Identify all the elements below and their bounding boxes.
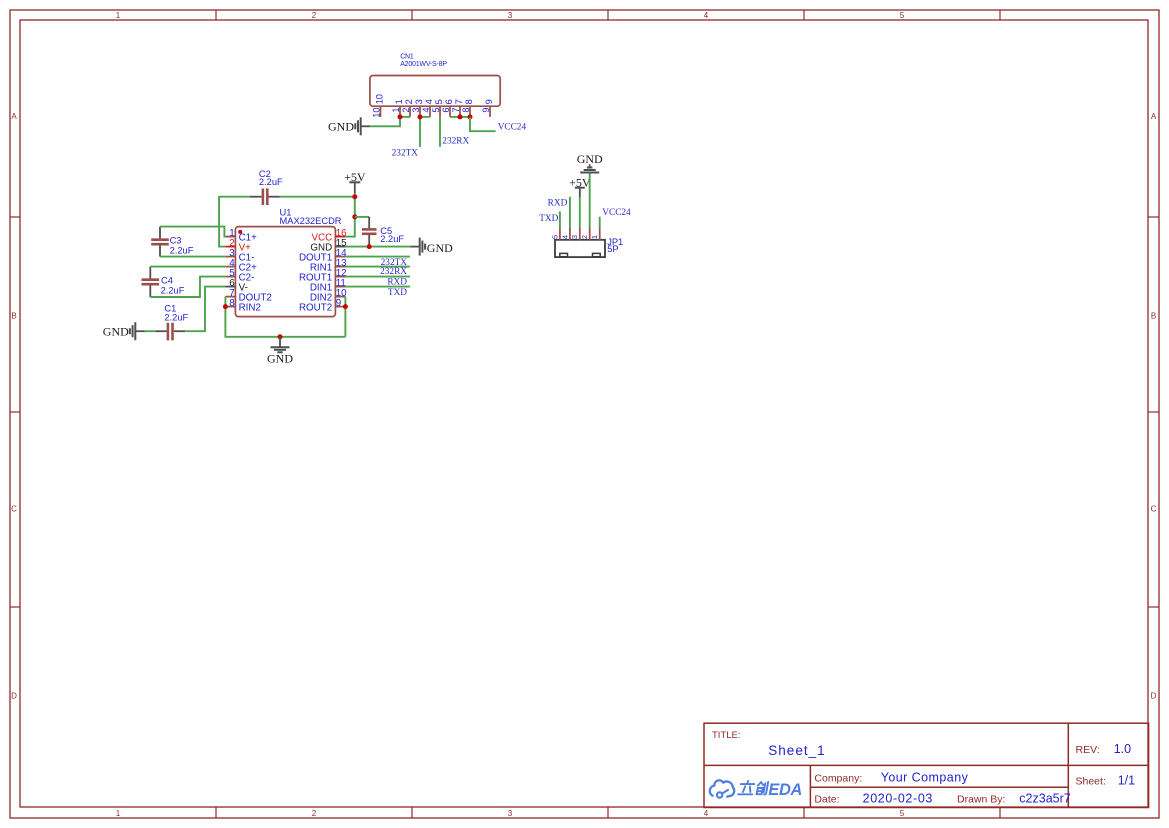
wire CN1 pin6-pin7-pin8 (450, 116, 470, 118)
svg-text:VCC24: VCC24 (602, 208, 631, 218)
wire JP1 pin2 to GND (589, 173, 591, 228)
wire CN1 pin8 to net VCC24 (470, 117, 496, 131)
svg-text:2020-02-03: 2020-02-03 (863, 791, 933, 805)
junction U1 pin9 (343, 304, 348, 309)
svg-text:232RX: 232RX (442, 136, 469, 146)
U1 pin 2 V+ (225, 246, 235, 248)
wire CN1 pin5 to net 232RX (439, 117, 441, 147)
junction +5V / C2 (352, 194, 357, 199)
capacitor C2 2.2uF (250, 169, 283, 205)
svg-text:1: 1 (116, 11, 121, 20)
U1 pin 9 ROUT2 (335, 306, 345, 308)
svg-text:2.2uF: 2.2uF (164, 313, 188, 323)
capacitor C4 2.2uF (142, 267, 185, 297)
svg-text:3: 3 (411, 107, 421, 112)
svg-text:2: 2 (580, 235, 589, 239)
svg-text:C3: C3 (170, 235, 182, 245)
CN1 pin 1 (399, 106, 401, 117)
U1 pin 12 ROUT1 (335, 276, 345, 278)
ground GND left of C1 (103, 322, 145, 340)
U1 pin 15 GND (335, 246, 345, 248)
svg-text:ROUT2: ROUT2 (299, 302, 332, 313)
JP1 pin 5 (559, 227, 561, 240)
junction bottom GND (278, 334, 283, 339)
svg-text:EDA: EDA (768, 781, 802, 799)
svg-text:C4: C4 (161, 276, 173, 286)
ground GND right of C5 (410, 238, 453, 256)
wire C1 left to GND (145, 330, 155, 332)
svg-text:4: 4 (704, 11, 709, 20)
svg-text:5: 5 (900, 11, 905, 20)
ground GND under U1 (267, 337, 293, 366)
CN1 pin 5 (439, 106, 441, 117)
svg-text:Company:: Company: (814, 772, 862, 784)
U1 pin 5 C2- (225, 276, 235, 278)
svg-text:9: 9 (481, 107, 491, 112)
svg-text:10: 10 (372, 107, 382, 117)
svg-text:GND: GND (427, 241, 453, 255)
wire JP1 pin4 net RXD (569, 197, 571, 228)
svg-text:6: 6 (441, 107, 451, 112)
U1 pin 11 DIN1 (335, 286, 345, 288)
svg-text:c2z3a5r7: c2z3a5r7 (1019, 791, 1070, 805)
wire +5V down to U1 pin16 (345, 193, 354, 236)
U1 pin 7 DOUT2 (225, 296, 235, 298)
svg-text:8: 8 (464, 99, 474, 104)
svg-text:B: B (1151, 311, 1156, 320)
svg-text:Drawn By:: Drawn By: (957, 793, 1005, 805)
title block (704, 723, 1149, 807)
svg-text:VCC24: VCC24 (498, 122, 527, 132)
power +5V at JP1 (569, 175, 591, 197)
CN1 pin 7 (459, 106, 461, 117)
svg-text:1: 1 (116, 809, 121, 818)
svg-text:RXD: RXD (548, 199, 568, 209)
svg-text:TXD: TXD (539, 214, 558, 224)
svg-text:1: 1 (394, 99, 404, 104)
wire CN1 pin1 to GND symbol (370, 117, 400, 126)
svg-text:1/1: 1/1 (1118, 773, 1135, 787)
svg-text:A2001WV-S-8P: A2001WV-S-8P (400, 61, 447, 68)
CN1 pin 4 (429, 106, 431, 117)
svg-text:3: 3 (508, 11, 513, 20)
wire JP1 pin5 net TXD (559, 212, 561, 228)
junction C5 bottom (367, 244, 372, 249)
svg-text:GND: GND (267, 352, 293, 366)
wire C2 right to +5V (280, 196, 355, 198)
svg-text:D: D (11, 691, 17, 700)
svg-text:2.2uF: 2.2uF (259, 177, 283, 187)
power +5V at C2 (344, 170, 366, 193)
svg-text:RIN2: RIN2 (239, 302, 261, 313)
op-amp/IC U1 MAX232ECDR (235, 208, 341, 317)
svg-text:2.2uF: 2.2uF (161, 286, 185, 296)
svg-text:D: D (1151, 691, 1157, 700)
svg-text:232TX: 232TX (392, 149, 419, 159)
svg-text:GND: GND (577, 152, 603, 166)
junction +5V / C5 branch (352, 214, 357, 219)
wire C4 top to U1 pin4 (150, 266, 225, 268)
svg-text:C: C (11, 504, 17, 513)
svg-text:3: 3 (414, 99, 424, 104)
svg-text:2.2uF: 2.2uF (380, 234, 404, 244)
junction at CN1 pin3 (418, 114, 423, 119)
svg-text:REV:: REV: (1076, 744, 1100, 756)
wire JP1 pin1 net VCC24 (599, 217, 601, 228)
svg-text:9: 9 (484, 99, 494, 104)
junction at CN1 pin1 (398, 114, 403, 119)
wire U1 pin12 net RXD (345, 276, 410, 278)
svg-text:Sheet:: Sheet: (1076, 775, 1106, 787)
ground GND above JP1 (inverted) (577, 152, 603, 173)
svg-text:9: 9 (336, 298, 341, 309)
CN1 pin 10 (380, 106, 382, 117)
svg-text:GND: GND (328, 120, 354, 134)
wire U1 pin11 net TXD (345, 286, 410, 288)
svg-text:5: 5 (550, 235, 559, 239)
svg-text:A: A (1151, 112, 1157, 121)
CN1 pin 9 (489, 106, 491, 117)
wire U1 pin14 net 232TX (345, 256, 410, 258)
svg-text:4: 4 (704, 809, 709, 818)
svg-text:3: 3 (508, 809, 513, 818)
CN1 pin 2 (409, 106, 411, 117)
wire C3 bottom to U1 pin3 (160, 256, 225, 258)
wire C2 left to U1 pin2 (219, 197, 250, 247)
U1 pin 14 DOUT1 (335, 256, 345, 258)
svg-text:8: 8 (461, 107, 471, 112)
svg-text:7: 7 (451, 107, 461, 112)
svg-text:2: 2 (401, 107, 411, 112)
wire U1 bottom GND bus (225, 297, 345, 337)
svg-text:GND: GND (103, 325, 129, 339)
svg-text:CN1: CN1 (400, 54, 414, 61)
svg-text:2: 2 (312, 809, 317, 818)
svg-text:Date:: Date: (814, 793, 839, 805)
wire JP1 pin3 to +5V (579, 197, 581, 227)
svg-text:5: 5 (900, 809, 905, 818)
svg-text:Sheet_1: Sheet_1 (768, 743, 825, 758)
wire U1 pin13 net 232RX (345, 266, 410, 268)
CN1 pin 3 (419, 106, 421, 117)
svg-text:2: 2 (312, 11, 317, 20)
svg-text:5: 5 (434, 99, 444, 104)
connector JP1 5P (550, 227, 623, 257)
LCEDA logo (710, 780, 802, 799)
wire C3 top to U1 pin1 (160, 227, 225, 237)
U1 pin 13 RIN1 (335, 266, 345, 268)
JP1 pin 3 (579, 227, 581, 240)
wire CN1 pin1-pin2 (GND) (400, 116, 410, 118)
JP1 pin 2 (589, 227, 591, 240)
junction U1 pin8 (223, 304, 228, 309)
JP1 pin 4 (569, 227, 571, 240)
U1 pin 4 C2+ (225, 266, 235, 268)
junction at CN1 pin7 (458, 114, 463, 119)
svg-text:5P: 5P (607, 244, 618, 254)
ground GND at CN1 (328, 117, 370, 135)
svg-text:1.0: 1.0 (1114, 742, 1131, 756)
junction inside U1 top-left (238, 230, 242, 234)
U1 pin 16 VCC (335, 236, 345, 238)
svg-text:A: A (11, 112, 17, 121)
wire U1 pin15 to GND (through C5 bottom) (345, 246, 410, 248)
svg-text:3: 3 (570, 235, 579, 239)
U1 pin 6 V- (225, 286, 235, 288)
svg-text:2.2uF: 2.2uF (170, 245, 194, 255)
U1 pin 10 DIN2 (335, 296, 345, 298)
svg-text:7: 7 (454, 99, 464, 104)
svg-text:TITLE:: TITLE: (712, 730, 741, 741)
svg-text:C: C (1151, 504, 1157, 513)
svg-text:6: 6 (444, 99, 454, 104)
capacitor C1 2.2uF (155, 304, 188, 341)
svg-text:Your Company: Your Company (881, 770, 969, 784)
svg-text:+5V: +5V (569, 175, 591, 189)
wire U1 pin10 down (344, 297, 346, 337)
svg-text:5: 5 (431, 107, 441, 112)
capacitor C5 2.2uF (362, 217, 404, 247)
U1 pin 8 RIN2 (225, 306, 235, 308)
svg-text:TXD: TXD (388, 288, 407, 298)
wire CN1 pin3 to net 232TX (419, 117, 421, 147)
svg-text:MAX232ECDR: MAX232ECDR (280, 216, 342, 226)
U1 pin 1 C1+ (225, 236, 235, 238)
CN1 pin 8 (469, 106, 471, 117)
svg-text:4: 4 (560, 235, 569, 239)
svg-text:2: 2 (404, 99, 414, 104)
svg-text:4: 4 (421, 107, 431, 112)
svg-text:+5V: +5V (344, 170, 366, 184)
capacitor C3 2.2uF (151, 227, 193, 257)
wire C1 right to U1 pin6 (185, 287, 225, 332)
connector CN1 A2001WV-S-8P (370, 54, 500, 118)
svg-text:8: 8 (229, 298, 235, 309)
wire branch to C5 top (355, 216, 369, 218)
wire C4 bottom to U1 pin5 (150, 277, 225, 297)
CN1 pin 6 (449, 106, 451, 117)
svg-text:1: 1 (590, 235, 599, 239)
svg-text:10: 10 (375, 94, 385, 104)
svg-text:B: B (11, 311, 16, 320)
junction at CN1 pin8 (468, 114, 473, 119)
JP1 pin 1 (599, 227, 601, 240)
svg-text:4: 4 (424, 99, 434, 104)
svg-text:1: 1 (391, 107, 401, 112)
wire CN1 pin3-pin4 (420, 116, 430, 118)
U1 pin 3 C1- (225, 256, 235, 258)
